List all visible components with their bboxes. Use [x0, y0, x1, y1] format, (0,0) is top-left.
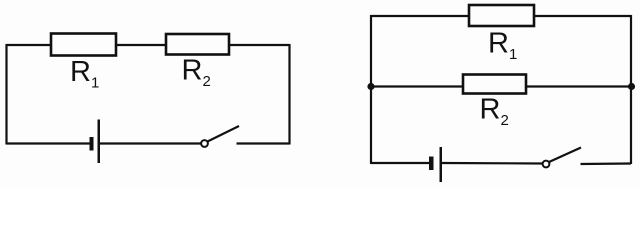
switch (right circuit)	[543, 148, 581, 168]
wire: left circuit top conductor	[7, 44, 290, 46]
wire: right circuit bottom, battery to switch	[442, 162, 543, 165]
junction node (left, right circuit)	[367, 83, 374, 90]
wire: left circuit right conductor	[288, 44, 290, 145]
resistor R2 (right circuit)	[463, 75, 526, 94]
battery (left circuit)	[90, 120, 101, 164]
wire: left circuit bottom, switch to right corner	[237, 142, 290, 144]
battery (right circuit)	[429, 147, 442, 182]
wire: right circuit bottom, left corner to battery	[371, 162, 429, 164]
resistor R2 (left circuit)	[166, 34, 229, 55]
junction node (right, right circuit)	[628, 83, 635, 90]
wire: right circuit right conductor	[630, 15, 632, 164]
wire: right circuit top conductor	[371, 15, 631, 17]
wire: right circuit bottom, switch to right corner	[581, 162, 632, 165]
switch (left circuit)	[201, 126, 239, 147]
wire: left circuit left conductor	[5, 44, 7, 145]
resistor R1 (right circuit)	[469, 5, 534, 26]
resistor R1 (left circuit)	[51, 34, 116, 56]
wire: right circuit left conductor	[370, 15, 372, 164]
wire: left circuit bottom, left corner to battery	[7, 142, 91, 144]
wire: right circuit middle parallel branch	[371, 85, 631, 87]
wire: left circuit bottom, battery to switch	[100, 142, 202, 144]
